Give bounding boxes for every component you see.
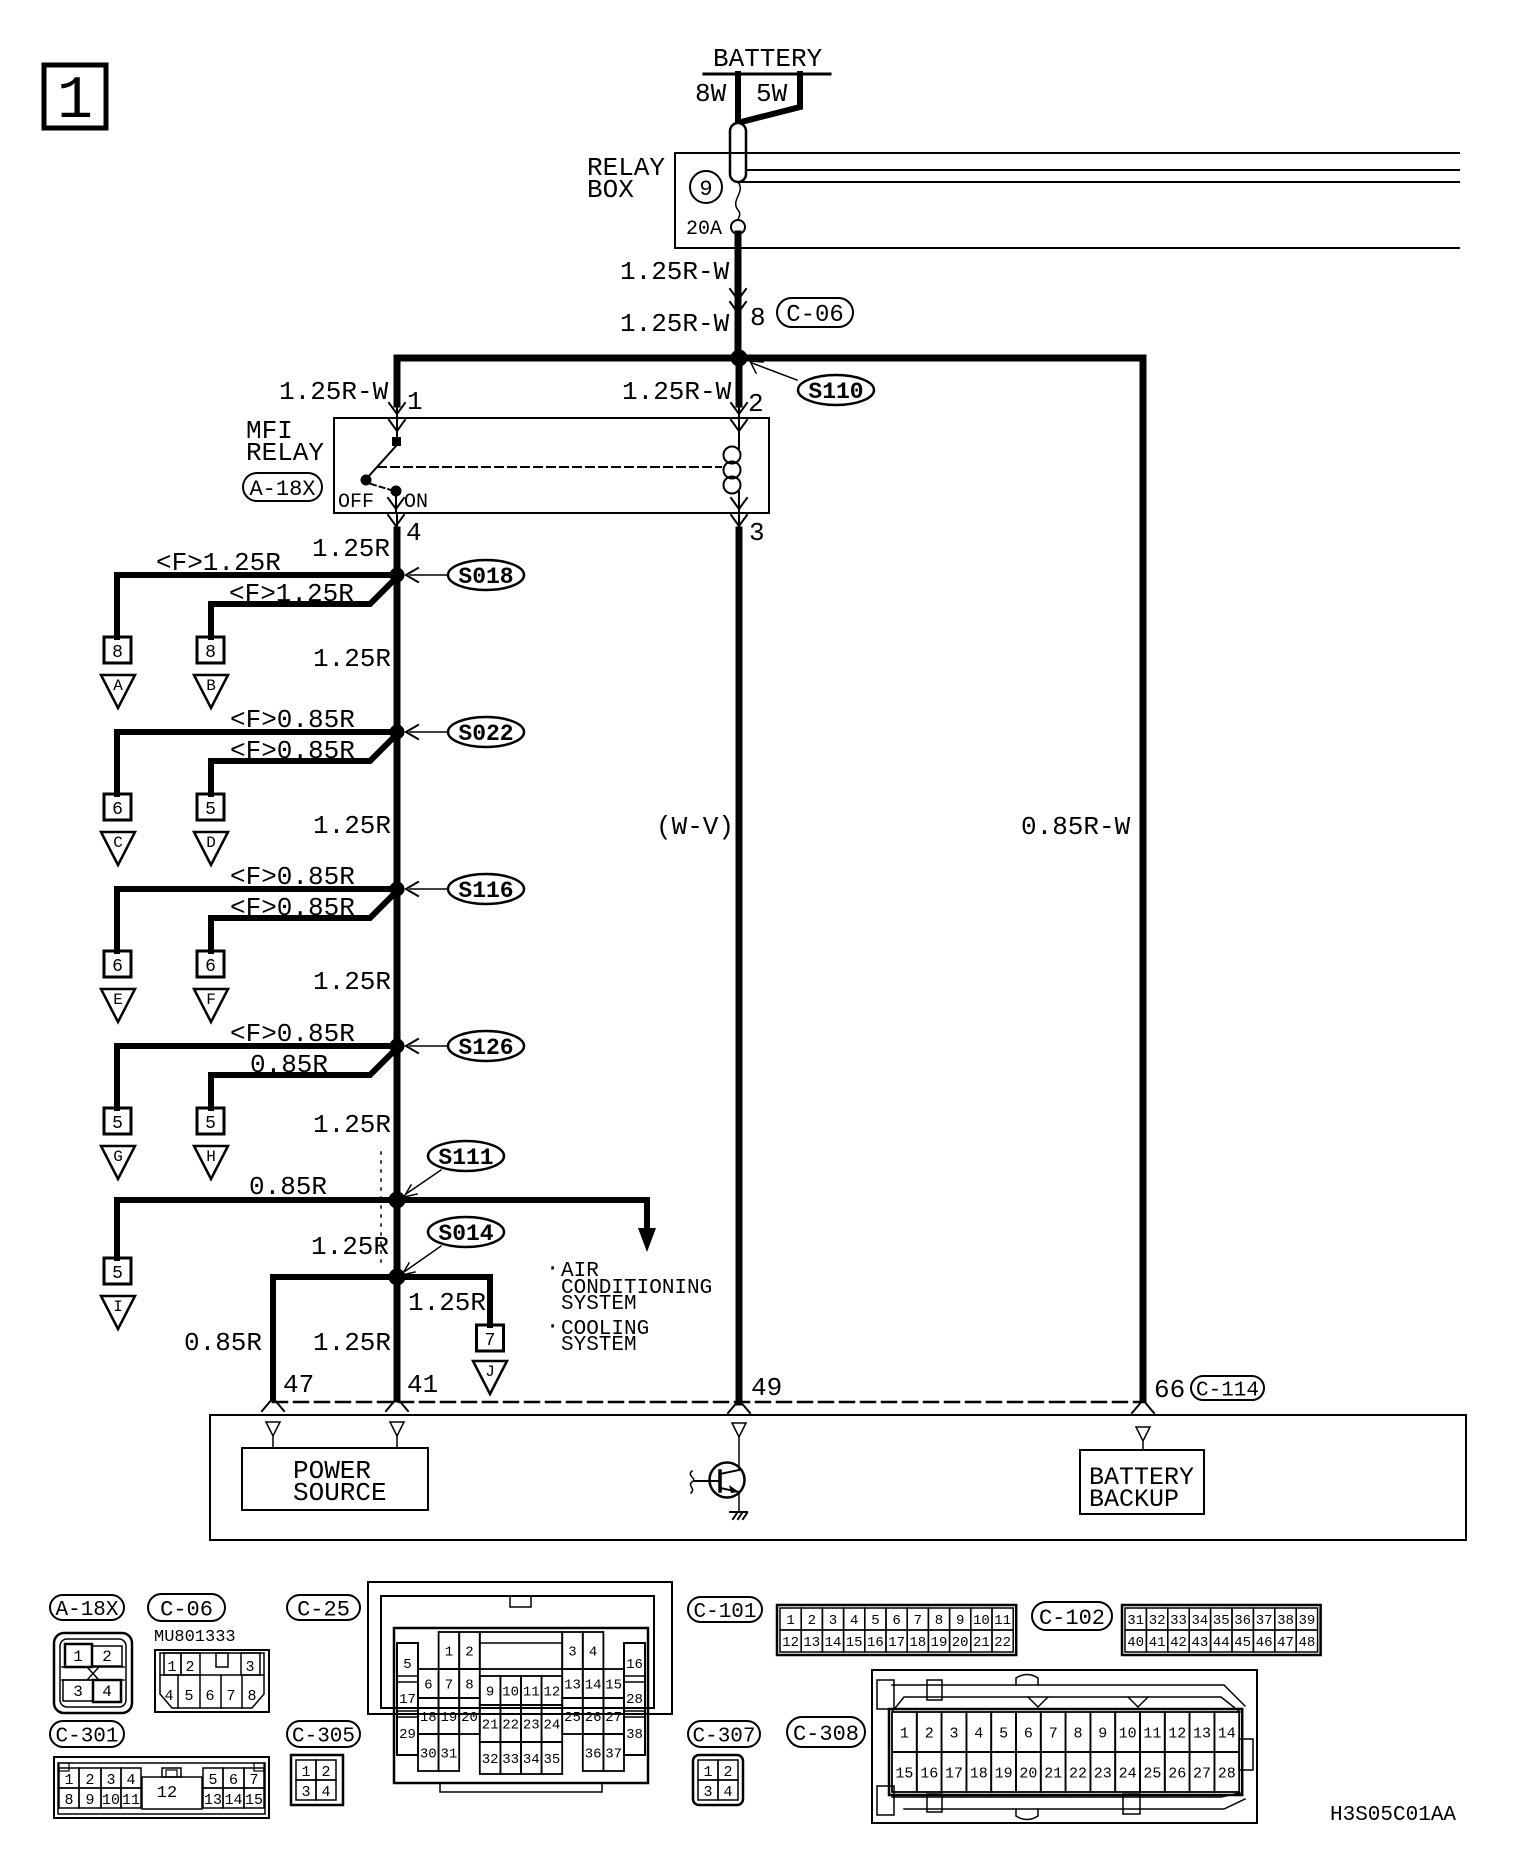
svg-text:28: 28 <box>1218 1765 1236 1782</box>
svg-text:8: 8 <box>64 1792 73 1809</box>
svg-text:0.85R: 0.85R <box>184 1328 262 1358</box>
svg-text:30: 30 <box>420 1747 437 1763</box>
svg-text:S018: S018 <box>458 564 513 590</box>
MFI relay pin 3 <box>731 498 747 509</box>
svg-text:1.25R: 1.25R <box>311 1232 389 1262</box>
destination triangle H <box>194 1146 228 1179</box>
node pin 47 entry <box>266 1422 280 1436</box>
destination triangle E <box>101 989 135 1022</box>
svg-text:1.25R: 1.25R <box>313 1328 391 1358</box>
svg-text:13: 13 <box>1193 1725 1211 1742</box>
svg-text:4: 4 <box>406 518 422 548</box>
svg-text:C-101: C-101 <box>693 1601 756 1624</box>
svg-text:16: 16 <box>626 1657 643 1673</box>
svg-text:43: 43 <box>1191 1635 1208 1651</box>
connector C-25 housing <box>368 1582 672 1792</box>
splice S018 junction node <box>390 568 404 582</box>
svg-text:41: 41 <box>1149 1635 1166 1651</box>
connector pin 8 <box>197 637 224 663</box>
svg-text:·: · <box>546 1314 559 1339</box>
svg-text:7: 7 <box>485 1331 496 1351</box>
svg-text:11: 11 <box>1143 1725 1161 1742</box>
connector C-305 face <box>291 1755 343 1805</box>
svg-text:4: 4 <box>164 1688 173 1705</box>
svg-text:4: 4 <box>974 1725 983 1742</box>
svg-text:34: 34 <box>523 1752 540 1768</box>
arrow from S116 label to junction <box>410 888 448 890</box>
svg-text:4: 4 <box>723 1784 732 1801</box>
relay switch dashed throw <box>371 484 391 490</box>
svg-text:17: 17 <box>888 1635 905 1651</box>
splice S014 label <box>428 1217 504 1247</box>
svg-text:C-305: C-305 <box>292 1726 355 1749</box>
svg-text:1: 1 <box>167 1659 176 1676</box>
svg-text:1: 1 <box>407 387 423 417</box>
splice S110 junction node <box>731 350 747 366</box>
svg-text:OFF: OFF <box>338 491 374 514</box>
splice S126 junction node <box>390 1039 404 1053</box>
svg-text:6: 6 <box>424 1678 432 1694</box>
svg-text:10: 10 <box>1119 1725 1137 1742</box>
arrow from S018 label to junction <box>410 574 448 576</box>
svg-text:46: 46 <box>1256 1635 1273 1651</box>
svg-text:2: 2 <box>85 1772 94 1789</box>
svg-text:5: 5 <box>205 1114 216 1134</box>
svg-text:24: 24 <box>1119 1765 1137 1782</box>
svg-text:8: 8 <box>750 303 766 333</box>
connector C-102 face <box>1122 1605 1321 1655</box>
svg-text:8: 8 <box>935 1613 943 1629</box>
svg-text:18: 18 <box>420 1710 437 1726</box>
destination triangle C <box>101 832 135 865</box>
svg-text:1: 1 <box>445 1645 453 1661</box>
svg-text:16: 16 <box>920 1765 938 1782</box>
arrow to air conditioning system <box>638 1228 656 1252</box>
svg-text:9: 9 <box>699 177 712 202</box>
svg-text:28: 28 <box>626 1692 643 1708</box>
svg-text:3: 3 <box>829 1613 837 1629</box>
connector pin 6 <box>197 951 224 977</box>
svg-text:31: 31 <box>1127 1613 1144 1629</box>
destination box <box>210 1415 1466 1540</box>
connector pin 5 (I) <box>104 1258 131 1284</box>
battery bus line <box>704 73 830 76</box>
svg-text:1.25R: 1.25R <box>312 534 390 564</box>
svg-text:14: 14 <box>825 1635 842 1651</box>
svg-text:25: 25 <box>1143 1765 1161 1782</box>
svg-text:8: 8 <box>205 643 216 663</box>
connector C-305 label <box>287 1721 360 1749</box>
connector A-18X face <box>54 1633 132 1713</box>
relay ON contact node <box>391 486 401 496</box>
connector C-114 label <box>1191 1376 1264 1403</box>
node pin 49 entry <box>732 1423 746 1437</box>
svg-text:16: 16 <box>867 1635 884 1651</box>
svg-text:3: 3 <box>73 1683 83 1701</box>
svg-text:E: E <box>113 991 123 1009</box>
svg-text:2: 2 <box>321 1764 330 1781</box>
svg-text:S126: S126 <box>458 1035 513 1061</box>
svg-text:2: 2 <box>808 1613 816 1629</box>
splice S116 junction node <box>390 882 404 896</box>
arrow from S022 label to junction <box>410 731 448 733</box>
note air conditioning system <box>546 1256 712 1316</box>
connector C-102 label <box>1032 1602 1112 1631</box>
svg-text:12: 12 <box>782 1635 799 1651</box>
node pin 66 entry <box>1136 1427 1150 1441</box>
splice S014 junction node <box>389 1269 405 1285</box>
wire branch 2 of S116 <box>211 892 396 951</box>
svg-text:26: 26 <box>585 1710 602 1726</box>
svg-text:<F>1.25R: <F>1.25R <box>229 579 354 609</box>
wire branch 1 of S116 <box>117 889 397 951</box>
svg-text:A-18X: A-18X <box>55 1599 118 1622</box>
page number 1 box <box>44 65 106 136</box>
svg-text:47: 47 <box>1277 1635 1294 1651</box>
svg-text:5: 5 <box>184 1688 193 1705</box>
svg-text:19: 19 <box>440 1710 457 1726</box>
svg-text:4: 4 <box>850 1613 858 1629</box>
svg-text:1.25R: 1.25R <box>313 967 391 997</box>
connector C-06 label <box>777 298 853 329</box>
svg-text:20: 20 <box>461 1710 478 1726</box>
svg-text:13: 13 <box>204 1792 222 1809</box>
wire S014 branch left to pin 47 <box>273 1277 397 1399</box>
svg-text:11: 11 <box>994 1613 1011 1629</box>
svg-text:6: 6 <box>1024 1725 1033 1742</box>
svg-text:(W-V): (W-V) <box>656 812 734 842</box>
svg-text:1.25R: 1.25R <box>313 644 391 674</box>
svg-text:15: 15 <box>245 1792 263 1809</box>
splice S111 junction node <box>389 1192 405 1208</box>
svg-text:<F>0.85R: <F>0.85R <box>230 705 355 735</box>
relay box bus line lower <box>738 181 1459 183</box>
connector C-101 face <box>777 1605 1016 1655</box>
svg-text:9: 9 <box>1098 1725 1107 1742</box>
connector C-06 face <box>155 1650 269 1712</box>
svg-text:F: F <box>206 991 216 1009</box>
fuse terminal circle <box>731 220 745 234</box>
connector pin 7 (J) <box>477 1325 504 1351</box>
splice S022 label <box>448 717 524 747</box>
wire main left trunk from pin 4 <box>394 530 401 1399</box>
svg-text:1.25R-W: 1.25R-W <box>620 309 730 339</box>
svg-text:19: 19 <box>931 1635 948 1651</box>
svg-text:3: 3 <box>106 1772 115 1789</box>
svg-text:37: 37 <box>1256 1613 1273 1629</box>
connector C-301 face <box>54 1757 269 1818</box>
splice S110 label <box>798 375 874 405</box>
svg-text:1: 1 <box>301 1764 310 1781</box>
svg-text:5: 5 <box>112 1264 123 1284</box>
svg-text:S014: S014 <box>438 1221 493 1247</box>
transistor Q <box>690 1437 747 1519</box>
svg-text:10: 10 <box>973 1613 990 1629</box>
svg-text:C-307: C-307 <box>692 1726 755 1749</box>
svg-text:33: 33 <box>1170 1613 1187 1629</box>
wire branch 2 of S022 <box>211 735 396 794</box>
svg-text:5: 5 <box>403 1657 411 1673</box>
connector A-18X label <box>243 473 322 502</box>
svg-text:14: 14 <box>224 1792 242 1809</box>
svg-text:1: 1 <box>786 1613 794 1629</box>
destination triangle D <box>194 832 228 865</box>
svg-text:2: 2 <box>723 1764 732 1781</box>
wire branch 1 of S022 <box>117 732 397 794</box>
connector pin 6 <box>104 951 131 977</box>
svg-text:10: 10 <box>102 1792 120 1809</box>
svg-text:38: 38 <box>1277 1613 1294 1629</box>
svg-text:7: 7 <box>249 1772 258 1789</box>
svg-text:10: 10 <box>502 1685 519 1701</box>
svg-text:9: 9 <box>85 1792 94 1809</box>
svg-text:18: 18 <box>970 1765 988 1782</box>
svg-text:G: G <box>113 1148 123 1166</box>
svg-text:6: 6 <box>112 800 123 820</box>
svg-text:B: B <box>206 677 216 695</box>
svg-text:2: 2 <box>102 1648 112 1666</box>
svg-text:6: 6 <box>112 957 123 977</box>
svg-text:<F>0.85R: <F>0.85R <box>230 736 355 766</box>
relay switch arm <box>368 446 396 477</box>
svg-text:24: 24 <box>543 1718 560 1734</box>
svg-text:4: 4 <box>102 1683 112 1701</box>
svg-text:SYSTEM: SYSTEM <box>561 1334 637 1357</box>
svg-text:7: 7 <box>914 1613 922 1629</box>
svg-text:40: 40 <box>1127 1635 1144 1651</box>
svg-text:4: 4 <box>321 1784 330 1801</box>
connector pin 8 <box>104 637 131 663</box>
relay coil <box>738 418 740 448</box>
relay box outline <box>675 153 1459 248</box>
svg-text:S110: S110 <box>808 379 863 405</box>
svg-text:1: 1 <box>73 1648 83 1666</box>
svg-text:6: 6 <box>205 957 216 977</box>
svg-text:37: 37 <box>605 1747 622 1763</box>
power source box <box>242 1448 428 1510</box>
destination triangle F <box>194 989 228 1022</box>
svg-text:SYSTEM: SYSTEM <box>561 1293 637 1316</box>
svg-text:42: 42 <box>1170 1635 1187 1651</box>
svg-text:C-301: C-301 <box>55 1726 118 1749</box>
destination triangle B <box>194 675 228 708</box>
node pin 41 entry <box>390 1422 404 1436</box>
connector C-308 label <box>787 1717 865 1747</box>
svg-text:C-06: C-06 <box>786 302 844 329</box>
svg-text:S022: S022 <box>458 721 513 747</box>
svg-text:15: 15 <box>605 1678 622 1694</box>
svg-text:8W: 8W <box>695 79 727 109</box>
connector C-06 bottom label <box>148 1594 225 1622</box>
connector C-301 label <box>50 1721 124 1749</box>
destination triangle J <box>473 1361 507 1394</box>
svg-text:12: 12 <box>1168 1725 1186 1742</box>
svg-text:3: 3 <box>749 518 765 548</box>
svg-text:RELAY: RELAY <box>246 438 324 468</box>
wire S014 branch right to pin J <box>397 1277 490 1325</box>
wire branch 2 of S018 <box>211 578 396 637</box>
svg-text:11: 11 <box>523 1685 540 1701</box>
svg-text:5: 5 <box>208 1772 217 1789</box>
svg-text:C-102: C-102 <box>1039 1606 1105 1631</box>
svg-text:1: 1 <box>57 68 93 136</box>
svg-text:2: 2 <box>465 1645 473 1661</box>
splice S022 junction node <box>390 725 404 739</box>
svg-text:18: 18 <box>909 1635 926 1651</box>
svg-text:<F>0.85R: <F>0.85R <box>230 1019 355 1049</box>
svg-text:9: 9 <box>956 1613 964 1629</box>
scan artifact dotted line <box>380 1152 382 1268</box>
svg-text:1.25R-W: 1.25R-W <box>620 257 730 287</box>
svg-text:20: 20 <box>952 1635 969 1651</box>
relay switch fixed contact <box>392 437 401 446</box>
svg-text:17: 17 <box>945 1765 963 1782</box>
svg-text:1.25R-W: 1.25R-W <box>279 377 389 407</box>
svg-text:44: 44 <box>1213 1635 1230 1651</box>
svg-text:36: 36 <box>1234 1613 1251 1629</box>
svg-text:39: 39 <box>1298 1613 1315 1629</box>
svg-text:6: 6 <box>229 1772 238 1789</box>
arrow from S111 label to junction <box>406 1170 441 1194</box>
svg-text:66: 66 <box>1154 1375 1185 1405</box>
arrow from S126 label to junction <box>410 1045 448 1047</box>
wire 5W from battery <box>741 74 800 122</box>
svg-text:C-308: C-308 <box>793 1722 859 1747</box>
svg-text:19: 19 <box>995 1765 1013 1782</box>
relay actuation dashed line <box>378 466 721 468</box>
connector C-101 label <box>688 1597 762 1624</box>
svg-text:J: J <box>485 1363 495 1381</box>
connector C-307 face <box>693 1755 743 1805</box>
svg-text:27: 27 <box>605 1710 622 1726</box>
splice S018 label <box>448 560 524 590</box>
svg-text:32: 32 <box>1149 1613 1166 1629</box>
svg-text:25: 25 <box>564 1710 581 1726</box>
svg-text:13: 13 <box>564 1678 581 1694</box>
wire main bus to MFI relay and battery backup <box>397 358 1143 1399</box>
svg-text:22: 22 <box>1069 1765 1087 1782</box>
svg-text:3: 3 <box>703 1784 712 1801</box>
svg-text:14: 14 <box>1218 1725 1236 1742</box>
svg-text:2: 2 <box>185 1659 194 1676</box>
svg-text:6: 6 <box>205 1688 214 1705</box>
svg-text:C-114: C-114 <box>1196 1380 1259 1403</box>
arrow from S110 label to junction <box>752 363 797 380</box>
wire branch 1 of S018 <box>117 575 397 637</box>
svg-text:8: 8 <box>247 1688 256 1705</box>
svg-text:1.25R-W: 1.25R-W <box>622 377 732 407</box>
svg-text:22: 22 <box>502 1718 519 1734</box>
svg-text:48: 48 <box>1298 1635 1315 1651</box>
svg-text:12: 12 <box>543 1685 560 1701</box>
wire middle trunk from pin 3 (W-V) <box>736 530 743 1402</box>
svg-text:49: 49 <box>751 1373 782 1403</box>
destination triangle A <box>101 675 135 708</box>
svg-text:A: A <box>113 677 123 695</box>
svg-text:12: 12 <box>157 1784 177 1803</box>
svg-text:2: 2 <box>925 1725 934 1742</box>
svg-text:14: 14 <box>585 1678 602 1694</box>
svg-text:35: 35 <box>543 1752 560 1768</box>
svg-text:33: 33 <box>502 1752 519 1768</box>
connector C-307 label <box>688 1721 760 1749</box>
svg-text:32: 32 <box>482 1752 499 1768</box>
svg-text:15: 15 <box>895 1765 913 1782</box>
svg-text:34: 34 <box>1191 1613 1208 1629</box>
svg-text:29: 29 <box>399 1727 416 1743</box>
svg-text:3: 3 <box>949 1725 958 1742</box>
svg-text:26: 26 <box>1168 1765 1186 1782</box>
svg-text:35: 35 <box>1213 1613 1230 1629</box>
svg-text:1: 1 <box>64 1772 73 1789</box>
fuse number 9 circle <box>690 171 722 203</box>
svg-text:4: 4 <box>589 1645 597 1661</box>
svg-text:1: 1 <box>900 1725 909 1742</box>
svg-text:D: D <box>206 834 216 852</box>
MFI relay pin 4 <box>395 491 397 513</box>
svg-text:H: H <box>206 1148 216 1166</box>
svg-text:11: 11 <box>122 1792 140 1809</box>
svg-text:41: 41 <box>407 1370 438 1400</box>
battery backup box <box>1080 1450 1204 1514</box>
destination triangle I <box>101 1296 135 1329</box>
svg-text:27: 27 <box>1193 1765 1211 1782</box>
svg-text:C-06: C-06 <box>160 1597 213 1622</box>
svg-text:23: 23 <box>523 1718 540 1734</box>
svg-text:BOX: BOX <box>587 175 634 205</box>
svg-text:7: 7 <box>226 1688 235 1705</box>
svg-text:MU801333: MU801333 <box>154 1628 236 1647</box>
wire S111 branch left to pin I <box>117 1200 397 1258</box>
svg-text:17: 17 <box>399 1692 416 1708</box>
svg-text:5: 5 <box>112 1114 123 1134</box>
connector C-308 face <box>872 1670 1257 1823</box>
connector pin 5 <box>197 794 224 820</box>
svg-text:1.25R: 1.25R <box>313 811 391 841</box>
svg-text:8: 8 <box>112 643 123 663</box>
wire branch 1 of S126 <box>117 1046 397 1108</box>
splice S116 label <box>448 874 524 904</box>
svg-text:3: 3 <box>301 1784 310 1801</box>
svg-text:C: C <box>113 834 123 852</box>
svg-text:S116: S116 <box>458 878 513 904</box>
wire S111 branch right to A/C system <box>397 1200 647 1230</box>
svg-text:0.85R-W: 0.85R-W <box>1021 812 1131 842</box>
svg-text:3: 3 <box>568 1645 576 1661</box>
svg-text:20A: 20A <box>686 218 722 241</box>
svg-text:4: 4 <box>126 1772 135 1789</box>
svg-text:SOURCE: SOURCE <box>293 1478 387 1508</box>
svg-text:20: 20 <box>1019 1765 1037 1782</box>
wire branch 2 of S126 <box>211 1049 396 1108</box>
MFI relay body <box>334 418 769 513</box>
svg-text:·: · <box>546 1256 559 1281</box>
svg-text:7: 7 <box>1049 1725 1058 1742</box>
connector A-18X bottom label <box>50 1595 124 1622</box>
svg-text:BACKUP: BACKUP <box>1089 1485 1179 1514</box>
svg-text:13: 13 <box>803 1635 820 1651</box>
svg-text:C-25: C-25 <box>297 1597 350 1622</box>
svg-text:21: 21 <box>973 1635 990 1651</box>
wire 8W from battery <box>735 74 741 124</box>
svg-text:3: 3 <box>245 1659 254 1676</box>
svg-text:15: 15 <box>846 1635 863 1651</box>
double chevron on feed wire <box>730 289 746 300</box>
connector pin 6 <box>104 794 131 820</box>
svg-text:1: 1 <box>703 1764 712 1781</box>
svg-text:8: 8 <box>1073 1725 1082 1742</box>
svg-text:5W: 5W <box>756 79 788 109</box>
